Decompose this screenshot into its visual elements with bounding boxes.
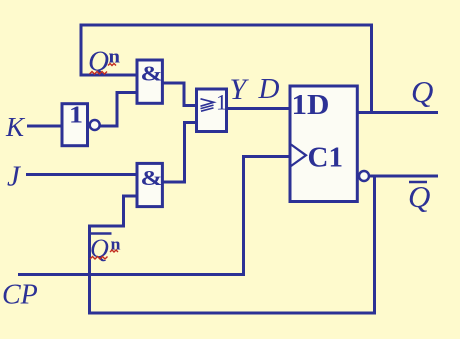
- svg-text:K: K: [5, 112, 26, 142]
- wire: K input: [27, 125, 63, 128]
- wire: Qbar output: [369, 175, 439, 178]
- wire: CP to C1 clock input: [18, 157, 291, 275]
- wire: Qbar feedback to AND G2 input: [90, 176, 375, 313]
- AND gate G2 box: [137, 163, 162, 206]
- node label Qn: [88, 46, 120, 78]
- svg-text:C1: C1: [308, 142, 343, 174]
- AND gate G1 box: [137, 60, 162, 103]
- svg-text:1: 1: [216, 90, 227, 115]
- OR gate label ">=1": [201, 99, 214, 111]
- D flip-flop clock triangle: [291, 145, 306, 167]
- svg-text:&: &: [141, 166, 163, 190]
- wire: Qn feedback from Q to AND G1 input: [81, 25, 372, 113]
- node label Qbar n: [90, 234, 121, 264]
- inverter output bubble: [90, 120, 100, 130]
- wire: AND G1 output to OR input: [161, 83, 197, 106]
- svg-text:&: &: [141, 62, 163, 86]
- label Qbar output: [408, 179, 430, 214]
- inverter gate U1 box: [62, 104, 88, 146]
- wire: Y to D input: [226, 107, 291, 110]
- svg-text:1D: 1D: [292, 89, 330, 121]
- svg-text:CP: CP: [2, 280, 38, 311]
- svg-text:1: 1: [69, 103, 83, 129]
- OR gate box: [197, 89, 227, 132]
- wire: Q output: [357, 111, 438, 114]
- svg-text:Q: Q: [411, 74, 433, 109]
- D flip-flop FF1 box: [290, 86, 357, 202]
- wire: inverter output to AND G1 input: [100, 93, 138, 127]
- wire: AND G2 output to OR input: [161, 123, 197, 183]
- svg-text:Q: Q: [408, 179, 430, 214]
- D flip-flop inverted output bubble: [359, 171, 369, 181]
- wire: J input: [26, 173, 137, 176]
- svg-text:D: D: [258, 73, 280, 105]
- svg-text:J: J: [7, 161, 21, 193]
